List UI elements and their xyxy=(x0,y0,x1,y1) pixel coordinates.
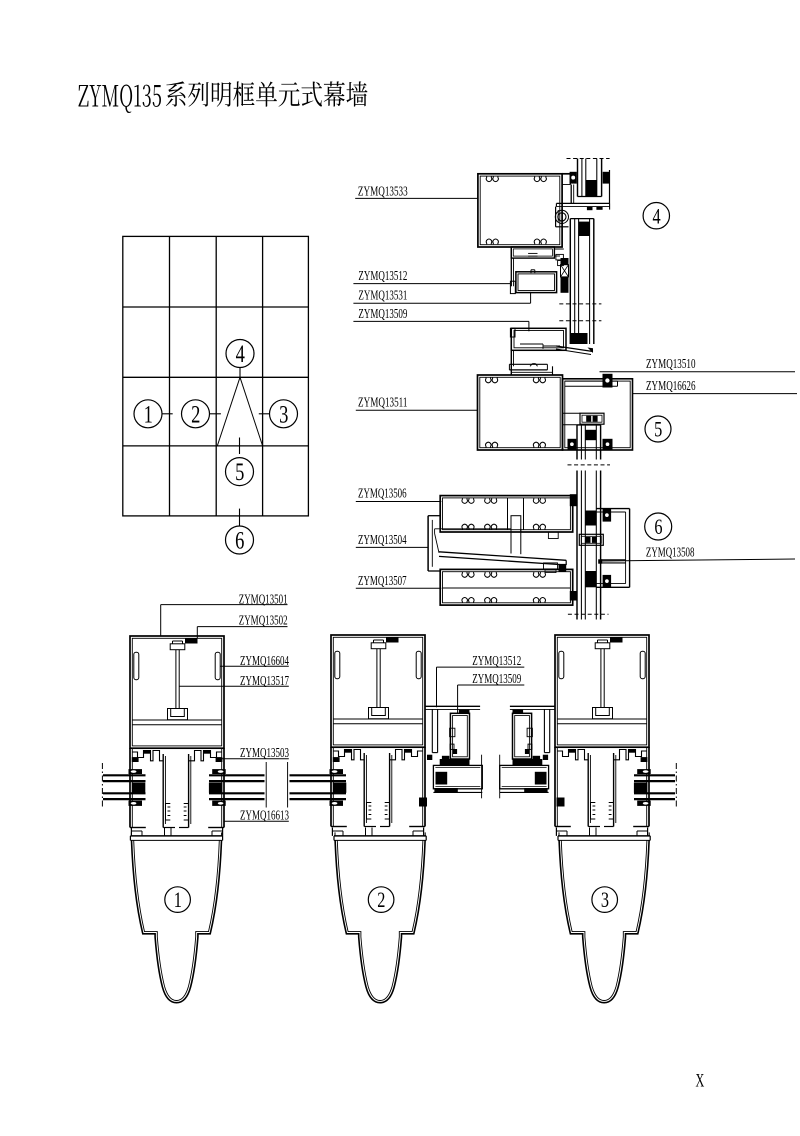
sash top rail xyxy=(425,705,480,707)
glass side clamps sec6 xyxy=(603,509,612,522)
profile ZYMQ13506 top box xyxy=(440,496,573,532)
sash glass run (between 4 and 5) xyxy=(569,219,571,344)
sash sill assembly ZYMQ13509 xyxy=(511,328,566,350)
profile ZYMQ16626 right box xyxy=(563,379,633,450)
detail circle 6 xyxy=(226,526,254,554)
bullet cover 3 xyxy=(558,832,650,1002)
sash frame (right) xyxy=(513,713,532,759)
svg-text:5: 5 xyxy=(235,457,244,485)
bullet cover 2 xyxy=(334,832,426,1002)
svg-text:X: X xyxy=(696,1071,705,1092)
svg-text:ZYMQ13512: ZYMQ13512 xyxy=(358,269,407,284)
glass between detail 1 and 2 xyxy=(209,774,265,776)
svg-text:2: 2 xyxy=(191,400,200,428)
profile ZYMQ13531 xyxy=(516,272,557,293)
svg-text:3: 3 xyxy=(601,889,609,913)
mullion detail 2 xyxy=(331,635,425,827)
glass clamps at mullions xyxy=(129,769,143,774)
glass stub right of detail 3 xyxy=(634,774,675,776)
elevation grid xyxy=(123,236,309,516)
sash glass bar left xyxy=(440,759,470,765)
svg-text:ZYMQ13508: ZYMQ13508 xyxy=(646,545,695,560)
glass stub far left xyxy=(103,774,146,776)
hook with screw port xyxy=(555,207,557,227)
svg-text:4: 4 xyxy=(652,205,660,229)
ticks xyxy=(162,413,173,415)
top edge extension to clamp xyxy=(562,173,570,175)
hanger channels xyxy=(431,709,433,752)
detail circle 4 xyxy=(226,340,254,368)
svg-text:ZYMQ13507: ZYMQ13507 xyxy=(358,574,407,589)
profile ZYMQ13507 bottom box xyxy=(440,569,573,605)
profile ZYMQ13504 middle xyxy=(427,516,429,571)
svg-text:ZYMQ13509: ZYMQ13509 xyxy=(358,307,407,322)
svg-text:ZYMQ13511: ZYMQ13511 xyxy=(358,395,408,410)
detail circle 2 xyxy=(182,400,210,428)
small connector top right xyxy=(579,534,603,545)
detail circle 5 xyxy=(226,458,254,486)
wall nubs xyxy=(422,798,427,804)
svg-text:ZYMQ13510: ZYMQ13510 xyxy=(646,357,696,372)
section 4: glass unit top xyxy=(577,159,579,197)
svg-text:4: 4 xyxy=(236,339,245,367)
profile ZYMQ13512 channel under box xyxy=(511,247,554,258)
gasket column with X block xyxy=(561,258,569,265)
circled numbers in bullets xyxy=(165,887,191,913)
svg-text:1: 1 xyxy=(174,889,182,913)
screw bosses xyxy=(486,176,498,181)
inner rail xyxy=(565,380,618,382)
small hook end xyxy=(510,281,515,293)
svg-text:5: 5 xyxy=(654,418,662,442)
svg-text:ZYMQ13504: ZYMQ13504 xyxy=(358,533,407,548)
svg-text:3: 3 xyxy=(279,400,288,428)
svg-text:6: 6 xyxy=(654,516,662,540)
small connector at slant end xyxy=(544,563,558,569)
mullion detail 3 xyxy=(555,635,649,827)
sash glass bar right xyxy=(513,759,543,765)
neck and shelf plate xyxy=(570,185,572,204)
mid arm ZYMQ13508 xyxy=(600,559,625,561)
sash frame ZYMQ13512 (left) xyxy=(450,713,469,759)
sill bottom plate xyxy=(509,363,547,365)
title text ZYMQ135 xyxy=(78,81,367,113)
section mark triangle xyxy=(217,377,240,446)
right anchor bracket xyxy=(596,508,630,510)
svg-text:ZYMQ13533: ZYMQ13533 xyxy=(358,184,408,199)
svg-text:6: 6 xyxy=(235,526,244,554)
glass clamp left xyxy=(570,172,577,184)
svg-text:1: 1 xyxy=(144,400,153,428)
profile ZYMQ13511 big box xyxy=(478,375,563,450)
detail circle 3 xyxy=(270,400,298,428)
small flags xyxy=(556,254,564,260)
glass run entering section 6 xyxy=(576,471,578,615)
detail circle 1 xyxy=(134,400,162,428)
svg-text:2: 2 xyxy=(377,889,385,913)
break marks xyxy=(481,755,483,799)
svg-text:ZYMQ16626: ZYMQ16626 xyxy=(646,379,696,394)
detail circle 4 (section) xyxy=(643,203,669,229)
glass side clamps xyxy=(568,439,577,450)
black corner block with port xyxy=(603,374,613,388)
svg-text:ZYMQ13517: ZYMQ13517 xyxy=(240,674,289,689)
detail circle 6 (section) xyxy=(645,513,672,540)
glass run below (between 5 and 6) xyxy=(576,425,578,460)
detail circle 5 (section) xyxy=(645,416,671,442)
svg-text:ZYMQ13506: ZYMQ13506 xyxy=(358,487,407,502)
profile ZYMQ13533 big box xyxy=(478,174,562,247)
bullet cover 1 xyxy=(130,832,222,1002)
svg-text:ZYMQ13531: ZYMQ13531 xyxy=(358,289,407,304)
small clips detail2 right / detail3 left xyxy=(419,798,427,807)
connector under right box xyxy=(580,413,604,424)
glass clamp right xyxy=(603,172,610,184)
glass bottom wedge and slant plate xyxy=(571,333,588,344)
inner pocket xyxy=(435,528,511,530)
leg-to-flange steps xyxy=(130,828,132,836)
mullion detail 1 xyxy=(130,636,224,828)
